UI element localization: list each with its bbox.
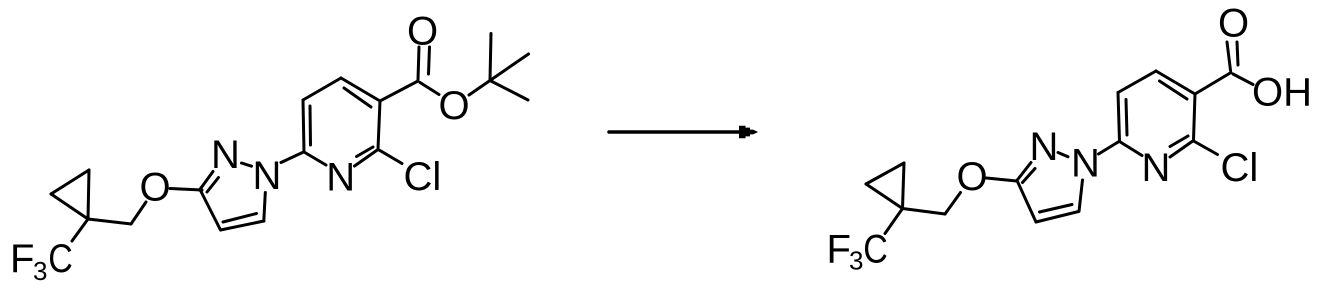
reaction arrow head (739, 126, 758, 139)
right pyrazole bond N1 to pyridine C6 (1099, 142, 1120, 155)
left ester bond O to tBu C (469, 81, 490, 96)
right acid double bond C=O second (1237, 42, 1238, 65)
svg-text:O: O (438, 84, 469, 128)
svg-text:C: C (48, 235, 73, 280)
left pyridine bond C3-C2 (378, 101, 380, 149)
left ester double bond C=O second (429, 47, 430, 74)
left pyridine double bond C6=C5 inner (309, 106, 313, 145)
svg-text:OH: OH (1252, 71, 1312, 115)
right molecule bond ether O to pyrazole C3 (987, 178, 1017, 181)
left pyrazole bond N1-C5 (264, 193, 266, 222)
left molecule cyclopropane bond T1-T2 (51, 170, 89, 194)
left pyrazole double bond C5=C4 main (221, 221, 265, 230)
left ester double bond C=O main (418, 47, 419, 80)
right pyridine double bond C6=C5 inner (1126, 100, 1127, 136)
right molecule cyclopropane bond T2-T3 (866, 184, 903, 209)
left pyrazole double bond C3=N2 main (200, 172, 214, 191)
right pyrazole bond N2-N1 (1058, 153, 1068, 157)
right pyrazole double bond C5=C4 main (1036, 212, 1079, 223)
right pyrazole double bond C5=C4 inner (1040, 205, 1073, 213)
right pyrazole double bond C3=N2 main (1017, 163, 1032, 182)
left pyridine double bond C6=C5 main (303, 100, 304, 152)
right molecule bond C2 to Cl (1195, 142, 1218, 155)
right molecule bond CH2 to ether O (945, 193, 961, 215)
svg-text:Cl: Cl (404, 155, 442, 199)
left pyrazole bond N1 to pyridine C6 (281, 153, 303, 163)
left pyridine bond C5-C4 (303, 78, 341, 100)
svg-text:N: N (326, 156, 355, 200)
left molecule bond ether O to pyrazole C3 (170, 189, 202, 191)
svg-text:N: N (1030, 125, 1059, 169)
right acid double bond C=O main (1227, 42, 1231, 71)
left tBu methyl arm up (490, 34, 491, 81)
left molecule bond C3 to ester carbonyl C (380, 81, 418, 101)
svg-text:F: F (827, 228, 851, 272)
left pyridine double bond C4=C3 inner (344, 88, 371, 107)
svg-text:O: O (1218, 2, 1249, 46)
left molecule cyclopropane bond T2-T3 (51, 194, 88, 219)
right pyridine double bond C2=N1 main (1170, 141, 1194, 158)
left pyrazole double bond C3=N2 inner (207, 178, 219, 193)
svg-text:C: C (863, 226, 888, 271)
svg-text:N: N (253, 154, 282, 198)
right pyrazole double bond C3=N2 inner (1023, 169, 1036, 183)
right pyridine double bond C4=C3 inner (1160, 81, 1188, 99)
left molecule cyclopropane bond T3-T1 (88, 170, 89, 219)
svg-text:O: O (956, 155, 987, 199)
right acid bond C-OH (1233, 74, 1253, 85)
svg-text:O: O (139, 166, 170, 210)
left ester bond C-O (420, 83, 439, 95)
right molecule cyclopropane bond T3-T1 (903, 163, 905, 209)
svg-text:N: N (211, 133, 240, 177)
right pyridine bond N1-C6 (1120, 142, 1143, 156)
left pyridine bond N1-C6 (304, 152, 326, 165)
left tBu methyl arm upper right (490, 54, 529, 81)
right pyrazole bond N1-C5 (1079, 180, 1083, 212)
reaction arrow shaft (609, 130, 741, 134)
right molecule bond quaternary C to CH2 (903, 209, 946, 215)
right pyridine double bond C4=C3 main (1156, 71, 1195, 94)
right pyrazole bond C4-C3 (1018, 182, 1037, 223)
right molecule cyclopropane bond T1-T2 (866, 163, 904, 184)
svg-text:N: N (1142, 146, 1171, 190)
svg-text:O: O (407, 10, 438, 54)
left pyridine double bond C2=N1 main (355, 150, 379, 167)
left molecule bond CH2 to ether O (131, 202, 146, 224)
svg-text:N: N (1071, 142, 1100, 186)
right pyridine bond C5-C4 (1118, 71, 1156, 93)
right pyridine double bond C6=C5 main (1118, 93, 1120, 142)
right pyridine double bond C2=N1 inner (1170, 136, 1188, 147)
svg-text:3: 3 (33, 256, 47, 286)
left molecule bond C2 to Cl (379, 150, 402, 164)
left pyridine double bond C2=N1 inner (357, 147, 374, 157)
right molecule bond quaternary C to CF3 (885, 209, 903, 234)
left molecule bond quaternary C to CF3 (72, 219, 88, 241)
left tBu methyl arm lower right (490, 81, 528, 101)
svg-text:F: F (10, 237, 34, 281)
left pyrazole bond C4-C3 (201, 191, 221, 231)
left molecule bond quaternary C to CH2 (88, 219, 131, 224)
left pyrazole bond N2-N1 (242, 163, 252, 166)
right pyridine bond C3-C2 (1194, 94, 1196, 140)
left pyridine double bond C4=C3 main (341, 78, 380, 101)
svg-text:Cl: Cl (1221, 146, 1259, 190)
svg-text:3: 3 (849, 246, 863, 276)
right molecule bond C3 to acid carbonyl C (1195, 73, 1231, 95)
left pyrazole double bond C5=C4 inner (223, 214, 257, 223)
